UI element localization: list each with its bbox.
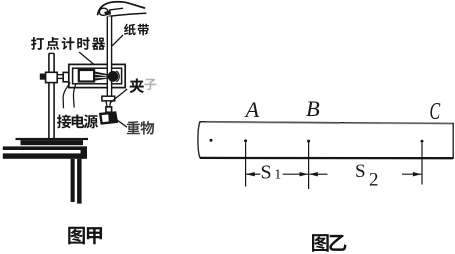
pointer line for 夹子 (111, 89, 128, 102)
timer electromagnet dark disc (108, 71, 119, 82)
stand pole (49, 53, 54, 138)
clamp arm (double line) (57, 75, 63, 79)
disc rim arc (116, 71, 119, 82)
table right corner (81, 146, 88, 158)
dimension line at C (421, 143, 423, 185)
S1 dimension arrows (246, 172, 308, 176)
ticker timer outer box (69, 64, 125, 87)
tape dots (210, 139, 424, 143)
svg-text:C: C (430, 99, 441, 125)
svg-text:2: 2 (369, 170, 379, 191)
dimension line at B (308, 143, 310, 190)
caption 图甲 (figure A) (68, 227, 102, 245)
clamp neck (106, 101, 111, 107)
svg-text:S: S (355, 161, 366, 182)
timer cone/shaft wedge (94, 71, 108, 80)
pointer line for 重物 (116, 119, 127, 127)
ticker timer inner box (73, 68, 122, 84)
label 接电源 (to power supply) (57, 114, 98, 128)
dimension line at A (245, 143, 247, 187)
label 夹子 (clamp) (130, 78, 144, 93)
pole clamp block (46, 72, 58, 82)
paper tape white strip (through timer) (108, 17, 111, 97)
hand holding tape (top) (98, 2, 146, 17)
table top (lower bar) (3, 153, 84, 158)
pointer line for 打点计时器 (79, 52, 94, 65)
paper tape vertical edges (107, 17, 111, 97)
tape bottom edge (heavier) (200, 157, 453, 160)
tape top edge scan streaks (206, 122, 340, 123)
caption 图乙 (figure B) (312, 234, 346, 252)
clamp T-bar below timer (102, 96, 115, 101)
label 纸带 (paper tape) (124, 24, 149, 36)
table top (upper bar) (3, 146, 87, 150)
timer white block (left inside) (79, 70, 94, 82)
svg-text:1: 1 (274, 168, 281, 183)
weight body (100, 113, 117, 124)
label 重物 (weight) (127, 121, 154, 135)
stand base plate (16, 138, 89, 140)
S2 dimension arrows (309, 172, 421, 176)
hook square (106, 107, 112, 112)
clamp knob (left) (40, 74, 46, 80)
power wires (63, 83, 76, 109)
paper tape strip (figure B) (198, 122, 453, 159)
weight dark part (108, 113, 117, 123)
table leg (71, 159, 75, 202)
label 打点计时器 (ticker timer) (31, 37, 105, 50)
pointer line for 纸带 (112, 35, 123, 46)
svg-text:S: S (261, 162, 272, 184)
svg-text:A: A (244, 97, 260, 122)
timer holder block (63, 72, 70, 81)
svg-text:B: B (306, 96, 320, 121)
